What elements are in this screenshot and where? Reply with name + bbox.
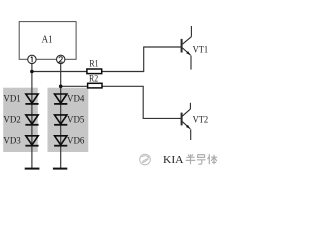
gray panel right (VD4-VD6 group) — [48, 88, 89, 152]
svg-text:VT1: VT1 — [193, 45, 209, 55]
terminal 1 — [28, 55, 36, 63]
svg-text:VD2: VD2 — [3, 115, 20, 126]
svg-text:VT2: VT2 — [193, 115, 209, 125]
svg-text:KIA: KIA — [163, 155, 184, 166]
watermark text KIA半导体 — [163, 154, 217, 166]
resistor R1 — [87, 69, 102, 74]
wire: R2 right to corner and down to VT2 base — [102, 86, 181, 118]
diode VD4 — [54, 94, 84, 105]
resistor R2 — [88, 83, 102, 88]
diode VD2 — [3, 115, 38, 126]
junction node 1 — [30, 70, 34, 74]
pin number 1 — [31, 57, 32, 63]
junction node 2 — [59, 85, 63, 89]
svg-text:VD6: VD6 — [67, 136, 84, 147]
svg-text:R2: R2 — [89, 74, 98, 84]
svg-text:VD1: VD1 — [3, 94, 20, 105]
glyph 半 — [186, 154, 196, 164]
gray panel left (VD1-VD3 group) — [3, 88, 38, 152]
svg-text:VD5: VD5 — [67, 115, 84, 126]
pin number 2 — [59, 57, 63, 62]
svg-text:R1: R1 — [89, 59, 98, 69]
transistor VT2 — [182, 103, 191, 140]
wire: node2 to R2 left — [61, 85, 88, 87]
watermark logo — [140, 154, 151, 165]
wire: R1 right to corner and up to VT1 base — [102, 47, 181, 72]
bottom terminal bar right column — [53, 168, 67, 170]
diode VD6 — [54, 136, 84, 147]
glyph 体 — [208, 154, 218, 164]
diode VD3 — [3, 136, 38, 147]
diode VD1 — [3, 94, 38, 105]
svg-text:VD4: VD4 — [67, 94, 84, 105]
module box A1 — [19, 22, 76, 60]
glyph 导 — [197, 155, 206, 165]
wire: left column from terminal 1 down to bottom bar — [31, 64, 33, 169]
bottom terminal bar left column — [25, 168, 40, 170]
wire: node1 to R1 left — [32, 71, 87, 73]
wire: right column from terminal 2 down to bottom bar — [60, 64, 62, 169]
transistor VT1 — [182, 26, 192, 70]
svg-text:VD3: VD3 — [3, 136, 20, 147]
diode VD5 — [54, 115, 84, 126]
terminal 2 — [57, 55, 65, 63]
svg-text:A1: A1 — [42, 35, 53, 46]
